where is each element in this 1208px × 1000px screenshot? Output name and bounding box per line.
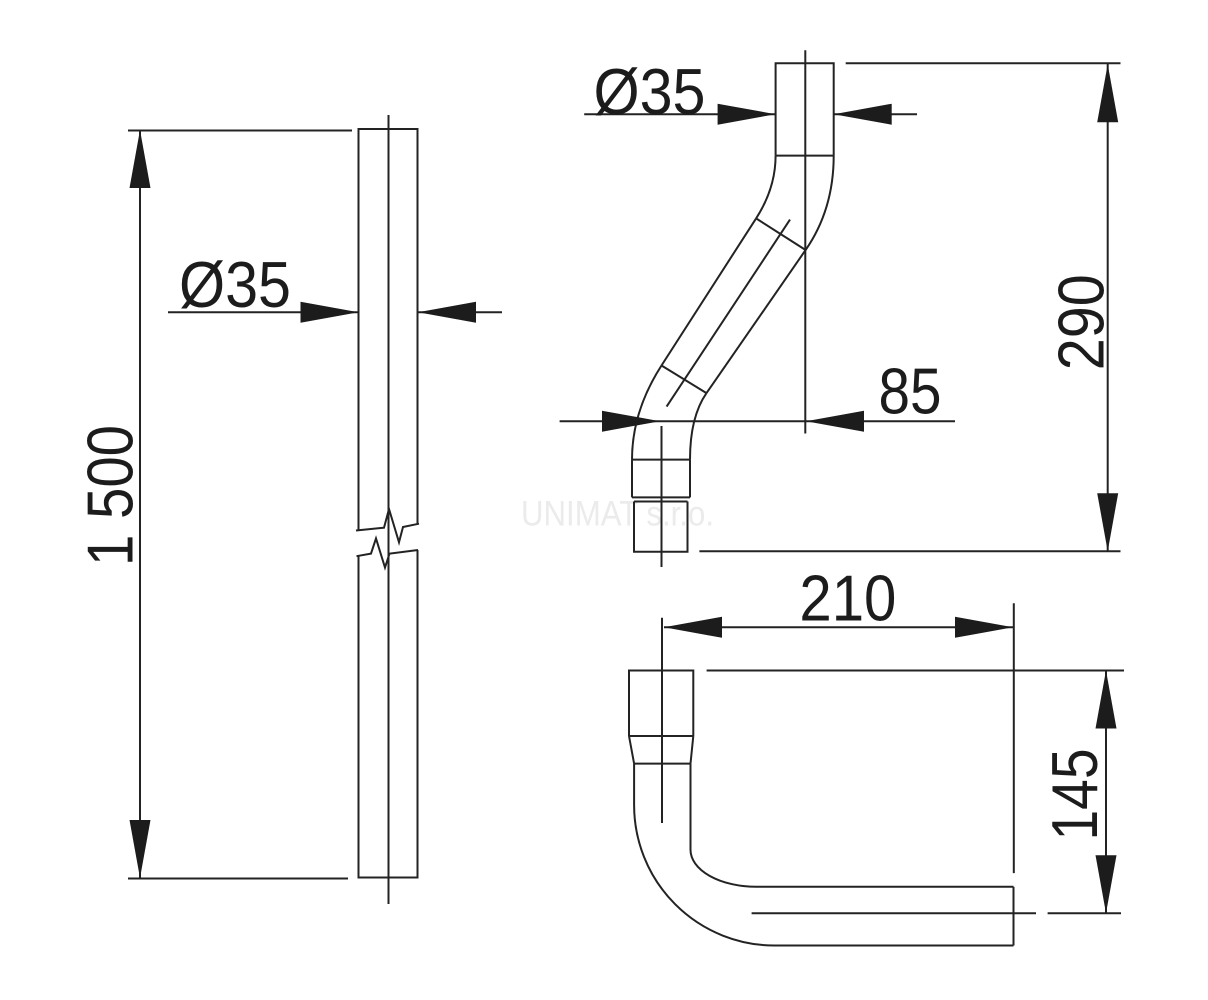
dimension 210 arrow right-pointing bbox=[955, 617, 1013, 638]
pipe P2 diagonal left edge bbox=[662, 218, 757, 365]
dimension 1500 top extension line bbox=[128, 130, 352, 132]
dimension 290 line bbox=[1107, 64, 1109, 551]
dimension 290 arrow down bbox=[1097, 493, 1118, 551]
pipe P2 top centerline bbox=[804, 50, 806, 433]
dimension 85 line bbox=[560, 420, 955, 422]
dimension 145 arrow up bbox=[1096, 671, 1117, 729]
dimension 145 arrow down bbox=[1096, 855, 1117, 913]
dimension 145 label bbox=[1038, 749, 1111, 841]
dimension 210 line bbox=[664, 626, 1013, 628]
dimension D35 view2 line right bbox=[834, 113, 917, 115]
pipe P3 inner edge bbox=[691, 764, 1014, 887]
pipe P2 lower joint line bbox=[662, 366, 707, 394]
dimension 210 label bbox=[799, 562, 896, 635]
svg-text:85: 85 bbox=[879, 354, 942, 427]
pipe P3 outer edge bbox=[634, 764, 1013, 946]
pipe P1 centerline bbox=[388, 115, 390, 904]
dimension D35 view1 label bbox=[179, 248, 291, 321]
pipe P2 diagonal right edge bbox=[707, 250, 806, 393]
dimension D35 view2 arrow left-pointing bbox=[834, 104, 892, 125]
pipe P2 upper joint line bbox=[756, 218, 806, 250]
pipe P2 lower bend left edge bbox=[632, 366, 662, 460]
pipe P3 end cap bbox=[1013, 887, 1015, 946]
dimension 1500 label bbox=[74, 425, 147, 566]
svg-text:Ø35: Ø35 bbox=[594, 55, 706, 128]
svg-text:290: 290 bbox=[1044, 274, 1117, 370]
pipe P2 sleeve lip line bbox=[634, 501, 688, 503]
dimension 1500 line bbox=[139, 131, 141, 878]
dimension D35 view1 line right bbox=[418, 311, 502, 313]
watermark UNIMAT s.r.o. bbox=[521, 495, 714, 534]
svg-text:1 500: 1 500 bbox=[74, 425, 147, 566]
dimension 145 line bbox=[1105, 671, 1107, 914]
pipe P3 socket bbox=[629, 671, 693, 737]
pipe P2 upper bend right edge bbox=[806, 156, 834, 250]
dimension 1500 arrow up bbox=[130, 130, 151, 188]
svg-text:UNIMAT s.r.o.: UNIMAT s.r.o. bbox=[521, 495, 714, 534]
dimension D35 view1 line left bbox=[168, 311, 359, 313]
pipe P2 lower bend joint line bbox=[632, 459, 690, 461]
dimension 290 arrow up bbox=[1097, 64, 1118, 122]
pipe P2 bottom centerline bbox=[661, 426, 663, 567]
dimension 145 top extension line bbox=[707, 670, 1124, 672]
pipe P2 sleeve bbox=[632, 460, 690, 498]
pipe P2 bottom tube bbox=[634, 502, 688, 552]
pipe P2 upper bend left edge bbox=[756, 156, 776, 219]
dimension D35 view2 arrow right-pointing bbox=[718, 104, 776, 125]
pipe P1 straight tube upper segment bbox=[359, 129, 418, 530]
pipe P1 upper break line bbox=[356, 509, 419, 542]
pipe P2 diagonal centerline bbox=[667, 220, 790, 407]
pipe P1 straight tube lower segment bbox=[359, 550, 418, 878]
dimension D35 view1 arrow right-pointing bbox=[301, 302, 359, 323]
pipe P2 top tube bbox=[776, 63, 834, 155]
dimension 1500 bottom extension line bbox=[128, 878, 348, 880]
pipe P2 lower bend right edge bbox=[690, 393, 707, 460]
pipe P1 lower break line bbox=[357, 538, 419, 567]
dimension 85 arrow right-pointing bbox=[602, 411, 660, 432]
dimension 85 label bbox=[879, 354, 942, 427]
dimension 210 right extension line bbox=[1013, 603, 1015, 873]
dimension 145 bottom extension line bbox=[1048, 912, 1121, 914]
pipe P3 socket taper bbox=[629, 736, 693, 764]
dimension 290 top extension line bbox=[846, 62, 1121, 64]
dimension 290 label bbox=[1044, 274, 1117, 370]
dimension 85 arrow left-pointing bbox=[806, 411, 864, 432]
dimension D35 view1 arrow left-pointing bbox=[418, 302, 476, 323]
pipe P3 vertical centerline bbox=[661, 618, 663, 823]
dimension D35 view2 line left bbox=[584, 113, 775, 115]
dimension 1500 arrow down bbox=[130, 820, 151, 878]
dimension 290 bottom extension line bbox=[699, 550, 1120, 552]
svg-text:210: 210 bbox=[799, 562, 896, 635]
svg-text:Ø35: Ø35 bbox=[179, 248, 291, 321]
dimension D35 view2 label bbox=[594, 55, 706, 128]
svg-text:145: 145 bbox=[1038, 749, 1111, 841]
pipe P2 top joint line bbox=[776, 155, 834, 157]
pipe P3 horizontal centerline bbox=[752, 912, 1036, 914]
dimension 210 arrow left-pointing bbox=[664, 617, 722, 638]
